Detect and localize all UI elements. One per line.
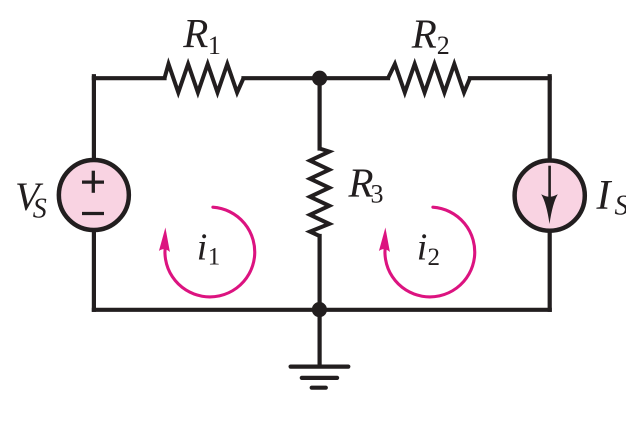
svg-text:2: 2 xyxy=(428,244,441,271)
svg-text:i: i xyxy=(197,226,208,268)
svg-text:R: R xyxy=(182,10,208,56)
svg-text:i: i xyxy=(417,226,428,268)
svg-text:R: R xyxy=(411,11,437,57)
svg-text:1: 1 xyxy=(208,244,221,271)
svg-text:S: S xyxy=(33,194,47,225)
svg-text:S: S xyxy=(615,191,626,222)
svg-text:I: I xyxy=(596,173,613,219)
svg-text:2: 2 xyxy=(437,31,450,60)
svg-text:1: 1 xyxy=(208,31,221,60)
svg-text:3: 3 xyxy=(371,179,384,208)
